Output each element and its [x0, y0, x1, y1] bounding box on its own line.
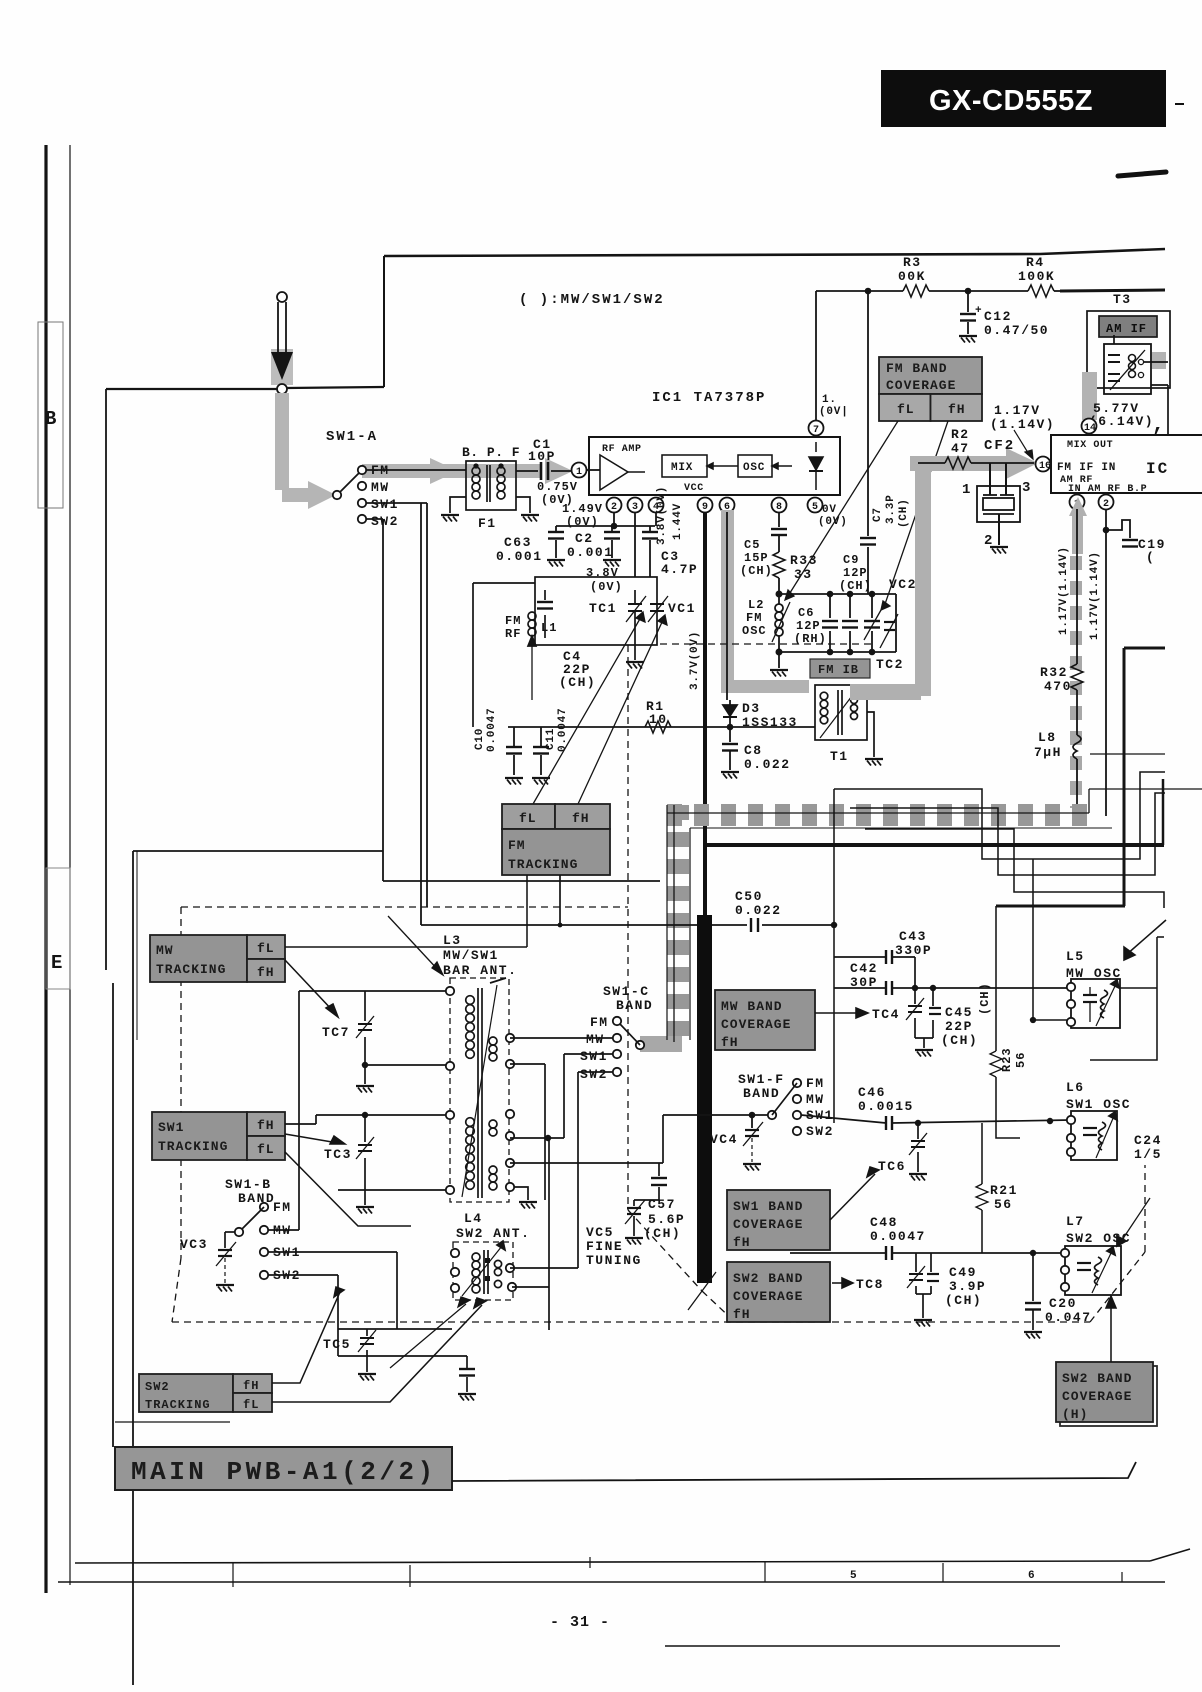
svg-text:1SS133: 1SS133 — [742, 715, 798, 730]
svg-text:TRACKING: TRACKING — [158, 1139, 228, 1154]
svg-text:(CH): (CH) — [644, 1226, 681, 1241]
svg-text:IC: IC — [1146, 460, 1169, 478]
svg-text:8: 8 — [776, 502, 782, 513]
svg-text:3: 3 — [632, 502, 638, 513]
svg-text:1.17V: 1.17V — [994, 403, 1041, 418]
svg-text:9: 9 — [702, 502, 708, 513]
svg-text:TRACKING: TRACKING — [508, 857, 578, 872]
svg-text:E: E — [51, 952, 62, 974]
svg-text:2: 2 — [611, 502, 617, 513]
svg-text:FM: FM — [806, 1076, 825, 1091]
svg-text:C46: C46 — [858, 1085, 886, 1100]
svg-text:33: 33 — [794, 567, 813, 582]
svg-text:GX-CD555Z: GX-CD555Z — [929, 85, 1093, 117]
svg-text:COVERAGE: COVERAGE — [733, 1217, 803, 1232]
svg-text:SW1 BAND: SW1 BAND — [733, 1199, 803, 1214]
svg-text:BAR ANT.: BAR ANT. — [443, 963, 517, 978]
svg-text:BAND: BAND — [616, 998, 653, 1013]
svg-text:0.0047: 0.0047 — [870, 1229, 926, 1244]
svg-text:SW2: SW2 — [371, 514, 399, 529]
svg-text:1.17V(1.14V): 1.17V(1.14V) — [1058, 546, 1070, 635]
svg-text:MW: MW — [371, 480, 390, 495]
svg-text:TC6: TC6 — [878, 1159, 906, 1174]
svg-text:F1: F1 — [478, 516, 497, 531]
svg-text:T1: T1 — [830, 749, 849, 764]
svg-text:1.17V(1.14V): 1.17V(1.14V) — [1089, 551, 1101, 640]
svg-text:FM: FM — [746, 611, 762, 625]
svg-text:C43: C43 — [899, 929, 927, 944]
svg-text:56: 56 — [994, 1197, 1013, 1212]
svg-text:100K: 100K — [1018, 269, 1055, 284]
svg-text:1.49V: 1.49V — [562, 502, 603, 516]
svg-text:L1: L1 — [541, 621, 557, 635]
svg-text:C2: C2 — [575, 531, 594, 546]
svg-text:TC3: TC3 — [324, 1147, 352, 1162]
svg-text:(0V|: (0V| — [819, 406, 849, 418]
svg-text:MW BAND: MW BAND — [721, 999, 783, 1014]
svg-text:FM: FM — [508, 838, 526, 853]
svg-text:SW1 OSC: SW1 OSC — [1066, 1097, 1131, 1112]
svg-text:12P: 12P — [843, 566, 868, 580]
svg-text:T3: T3 — [1113, 292, 1132, 307]
svg-text:(CH): (CH) — [978, 982, 992, 1015]
svg-text:(1.14V): (1.14V) — [990, 417, 1055, 432]
svg-text:CF2: CF2 — [984, 438, 1015, 454]
svg-text:fH: fH — [948, 402, 966, 417]
svg-text:SW2: SW2 — [806, 1124, 834, 1139]
svg-text:L5: L5 — [1066, 949, 1085, 964]
svg-text:15P: 15P — [744, 551, 769, 565]
svg-text:SW1-A: SW1-A — [326, 429, 378, 445]
svg-text:1.44V: 1.44V — [672, 503, 684, 540]
svg-text:C57: C57 — [648, 1197, 676, 1212]
svg-text:SW1-B: SW1-B — [225, 1177, 272, 1192]
svg-text:fL: fL — [243, 1398, 259, 1412]
svg-text:2: 2 — [984, 533, 994, 549]
svg-text:C45: C45 — [945, 1005, 973, 1020]
svg-text:(CH): (CH) — [740, 564, 773, 578]
svg-text:4.7P: 4.7P — [661, 562, 698, 577]
svg-text:fL: fL — [897, 402, 915, 417]
svg-text:fH: fH — [243, 1379, 259, 1393]
svg-text:3.3P: 3.3P — [885, 494, 897, 524]
svg-text:MW/SW1: MW/SW1 — [443, 948, 499, 963]
svg-text:SW2: SW2 — [145, 1380, 170, 1394]
svg-text:2: 2 — [1103, 499, 1109, 510]
svg-text:TC7: TC7 — [322, 1025, 350, 1040]
svg-text:C20: C20 — [1049, 1296, 1077, 1311]
svg-text:VC4: VC4 — [710, 1132, 738, 1147]
svg-text:FM: FM — [590, 1015, 609, 1030]
svg-text:TC1: TC1 — [589, 601, 617, 616]
svg-text:MW: MW — [156, 943, 174, 958]
svg-text:B: B — [45, 408, 56, 430]
svg-text:SW1: SW1 — [580, 1049, 608, 1064]
svg-text:7μH: 7μH — [1034, 745, 1062, 760]
svg-text:0.47/50: 0.47/50 — [984, 323, 1049, 338]
svg-text:COVERAGE: COVERAGE — [721, 1017, 791, 1032]
svg-text:C6: C6 — [798, 606, 814, 620]
svg-text:0.022: 0.022 — [744, 757, 791, 772]
svg-text:C11: C11 — [545, 728, 557, 750]
svg-text:0.0015: 0.0015 — [858, 1099, 914, 1114]
svg-text:3.8V: 3.8V — [586, 566, 619, 580]
svg-text:47: 47 — [951, 441, 970, 456]
svg-text:7: 7 — [813, 425, 819, 436]
svg-text:R32: R32 — [1040, 665, 1068, 680]
svg-text:R3: R3 — [903, 255, 922, 270]
svg-text:1/5: 1/5 — [1134, 1147, 1162, 1162]
svg-text:FM IF IN: FM IF IN — [1057, 462, 1116, 474]
svg-text:C10: C10 — [474, 728, 486, 750]
svg-text:SW1: SW1 — [158, 1120, 184, 1135]
svg-text:IN AM RF B.P: IN AM RF B.P — [1068, 484, 1147, 495]
svg-text:MAIN PWB-A1(2/2): MAIN PWB-A1(2/2) — [131, 1457, 437, 1487]
svg-text:R23: R23 — [1000, 1047, 1014, 1072]
svg-text:SW1: SW1 — [371, 497, 399, 512]
svg-text:TRACKING: TRACKING — [156, 962, 226, 977]
svg-text:C48: C48 — [870, 1215, 898, 1230]
svg-text:16: 16 — [1039, 461, 1051, 472]
svg-text:SW1-F: SW1-F — [738, 1072, 785, 1087]
svg-text:5.6P: 5.6P — [648, 1212, 685, 1227]
svg-text:470: 470 — [1044, 679, 1072, 694]
svg-text:(CH): (CH) — [559, 675, 596, 690]
svg-text:VC3: VC3 — [180, 1237, 208, 1252]
svg-text:00K: 00K — [898, 269, 926, 284]
svg-text:IC1 TA7378P: IC1 TA7378P — [652, 390, 766, 406]
svg-text:(CH): (CH) — [898, 498, 910, 528]
svg-text:6: 6 — [1028, 1570, 1035, 1582]
svg-text:fL: fL — [257, 1142, 275, 1157]
svg-text:- 31 -: - 31 - — [550, 1614, 610, 1631]
svg-text:L6: L6 — [1066, 1080, 1085, 1095]
svg-text:C42: C42 — [850, 961, 878, 976]
svg-text:L8: L8 — [1038, 730, 1057, 745]
svg-text:,: , — [1152, 414, 1165, 437]
svg-text:(CH): (CH) — [839, 579, 872, 593]
svg-text:B. P. F: B. P. F — [462, 445, 520, 460]
svg-text:(0V): (0V) — [818, 516, 848, 528]
svg-text:FM IB: FM IB — [818, 663, 859, 677]
svg-text:0.0047: 0.0047 — [557, 708, 569, 752]
svg-text:3.8V(0V): 3.8V(0V) — [656, 486, 668, 545]
svg-text:RF AMP: RF AMP — [602, 444, 642, 455]
svg-text:SW2: SW2 — [580, 1067, 608, 1082]
svg-text:14: 14 — [1084, 423, 1096, 434]
svg-text:fH: fH — [733, 1235, 751, 1250]
svg-text:R2: R2 — [951, 427, 970, 442]
svg-text:3.9P: 3.9P — [949, 1279, 986, 1294]
svg-text:( ):MW/SW1/SW2: ( ):MW/SW1/SW2 — [519, 292, 665, 308]
svg-text:0.001: 0.001 — [496, 549, 543, 564]
svg-text:VC5: VC5 — [586, 1225, 614, 1240]
svg-text:R21: R21 — [990, 1183, 1018, 1198]
svg-text:VCC: VCC — [684, 483, 704, 494]
svg-text:30P: 30P — [850, 975, 878, 990]
svg-text:56: 56 — [1014, 1052, 1028, 1068]
svg-text:fH: fH — [572, 811, 590, 826]
svg-text:MW: MW — [806, 1092, 825, 1107]
svg-text:10P: 10P — [528, 449, 556, 464]
svg-text:1: 1 — [962, 482, 972, 498]
svg-text:OSC: OSC — [743, 462, 765, 474]
svg-text:(6.14V): (6.14V) — [1089, 414, 1154, 429]
svg-text:L7: L7 — [1066, 1214, 1085, 1229]
svg-text:D3: D3 — [742, 701, 761, 716]
svg-text:C12: C12 — [984, 309, 1012, 324]
svg-text:MIX: MIX — [671, 462, 693, 474]
svg-text:TRACKING: TRACKING — [145, 1398, 211, 1412]
svg-text:fH: fH — [257, 1118, 275, 1133]
svg-text:FINE: FINE — [586, 1239, 623, 1254]
svg-text:TC2: TC2 — [876, 657, 904, 672]
svg-text:TC8: TC8 — [856, 1277, 884, 1292]
svg-text:fL: fL — [519, 811, 537, 826]
svg-text:22P: 22P — [945, 1019, 973, 1034]
svg-text:1: 1 — [576, 467, 582, 478]
svg-text:fL: fL — [257, 941, 275, 956]
svg-text:BAND: BAND — [238, 1191, 275, 1206]
svg-text:5: 5 — [850, 1570, 857, 1582]
svg-text:FM: FM — [273, 1200, 292, 1215]
svg-text:(CH): (CH) — [945, 1293, 982, 1308]
svg-text:L4: L4 — [464, 1211, 483, 1226]
svg-text:3: 3 — [1022, 480, 1032, 496]
svg-text:COVERAGE: COVERAGE — [733, 1289, 803, 1304]
svg-text:+: + — [975, 305, 982, 317]
svg-text:BAND: BAND — [743, 1086, 780, 1101]
svg-text:fH: fH — [721, 1035, 739, 1050]
svg-text:5: 5 — [812, 502, 818, 513]
svg-text:OSC: OSC — [742, 624, 767, 638]
svg-text:RF: RF — [505, 627, 521, 641]
svg-text:SW1-C: SW1-C — [603, 984, 650, 999]
svg-text:0.75V: 0.75V — [537, 480, 578, 494]
svg-text:L2: L2 — [748, 598, 764, 612]
svg-text:10: 10 — [649, 712, 668, 727]
svg-text:SW2 BAND: SW2 BAND — [733, 1271, 803, 1286]
svg-text:fH: fH — [257, 965, 275, 980]
svg-text:C9: C9 — [843, 553, 859, 567]
svg-text:C63: C63 — [504, 535, 532, 550]
svg-text:(0V): (0V) — [566, 515, 599, 529]
svg-text:1.: 1. — [822, 394, 837, 406]
svg-text:0.0047: 0.0047 — [486, 708, 498, 752]
svg-text:C7: C7 — [872, 507, 884, 522]
svg-text:AM IF: AM IF — [1106, 322, 1147, 336]
svg-text:3.7V(0V): 3.7V(0V) — [689, 631, 701, 690]
svg-text:(H): (H) — [1062, 1407, 1088, 1422]
svg-text:TUNING: TUNING — [586, 1253, 642, 1268]
svg-text:MW: MW — [586, 1032, 605, 1047]
svg-text:0.047: 0.047 — [1045, 1310, 1092, 1325]
svg-text:COVERAGE: COVERAGE — [1062, 1389, 1132, 1404]
svg-text:0.022: 0.022 — [735, 903, 782, 918]
svg-text:SW2 BAND: SW2 BAND — [1062, 1371, 1132, 1386]
svg-text:SW2 ANT.: SW2 ANT. — [456, 1226, 530, 1241]
svg-text:330P: 330P — [895, 943, 932, 958]
svg-text:C5: C5 — [744, 538, 760, 552]
svg-text:C8: C8 — [744, 743, 763, 758]
svg-text:L3: L3 — [443, 933, 462, 948]
svg-text:TC4: TC4 — [872, 1007, 900, 1022]
svg-text:MIX OUT: MIX OUT — [1067, 440, 1113, 451]
svg-text:(0V): (0V) — [590, 580, 623, 594]
svg-text:12P: 12P — [796, 619, 821, 633]
svg-text:(: ( — [1146, 550, 1155, 565]
svg-text:C24: C24 — [1134, 1133, 1162, 1148]
svg-text:FM: FM — [505, 614, 521, 628]
svg-text:FM BAND: FM BAND — [886, 361, 948, 376]
svg-text:(CH): (CH) — [941, 1033, 978, 1048]
svg-text:0.001: 0.001 — [567, 545, 614, 560]
svg-text:FM: FM — [371, 463, 390, 478]
svg-text:COVERAGE: COVERAGE — [886, 378, 956, 393]
svg-text:C49: C49 — [949, 1265, 977, 1280]
svg-text:TC5: TC5 — [323, 1337, 351, 1352]
svg-text:VC1: VC1 — [668, 601, 696, 616]
svg-text:R4: R4 — [1026, 255, 1045, 270]
svg-text:fH: fH — [733, 1307, 751, 1322]
svg-text:C50: C50 — [735, 889, 763, 904]
svg-text:0V: 0V — [822, 504, 837, 516]
